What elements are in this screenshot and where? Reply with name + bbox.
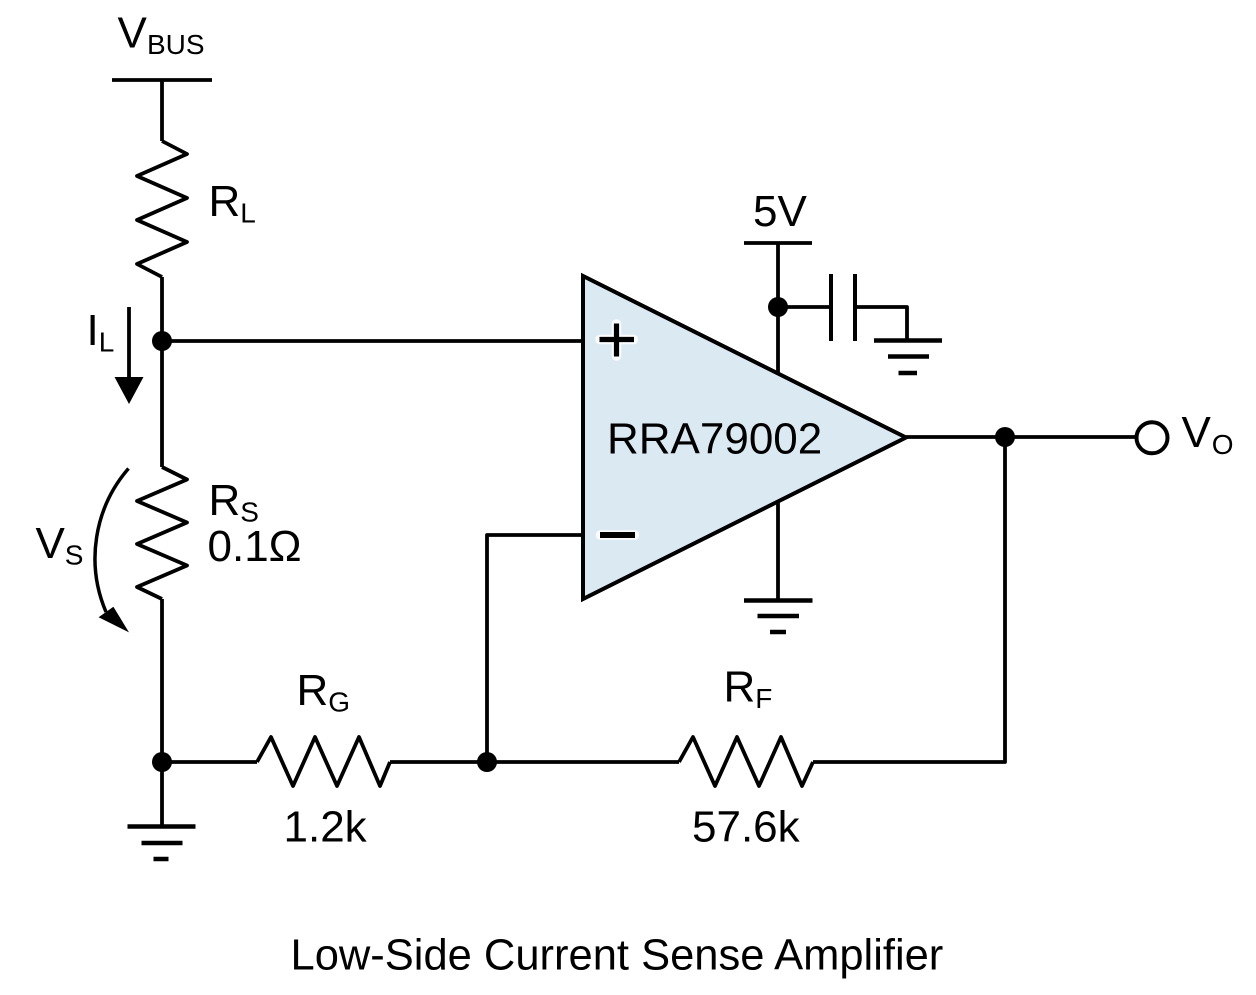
svg-text:O: O [1212,429,1234,460]
svg-text:F: F [755,683,772,714]
svg-text:L: L [99,327,115,358]
svg-text:BUS: BUS [147,29,205,60]
svg-text:57.6k: 57.6k [692,803,801,852]
svg-text:RRA79002: RRA79002 [607,415,822,464]
svg-text:V: V [118,9,148,58]
svg-text:5V: 5V [753,187,807,236]
svg-text:R: R [724,663,756,712]
svg-text:G: G [328,687,350,718]
svg-text:R: R [209,476,241,525]
svg-text:R: R [297,666,329,715]
svg-text:0.1Ω: 0.1Ω [208,522,302,571]
svg-text:L: L [240,198,256,229]
svg-text:Low-Side Current Sense Amplifi: Low-Side Current Sense Amplifier [291,932,944,980]
svg-text:V: V [1182,408,1212,457]
svg-text:1.2k: 1.2k [284,803,368,852]
svg-text:R: R [209,177,241,226]
svg-text:I: I [87,306,99,355]
svg-text:V: V [36,519,66,568]
svg-text:S: S [65,540,84,571]
